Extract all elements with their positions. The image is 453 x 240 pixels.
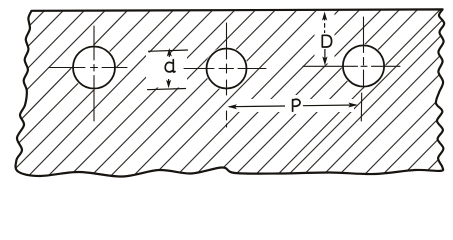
label D xyxy=(322,35,331,47)
hole 2 horizontal centerline xyxy=(184,68,266,70)
label p xyxy=(293,99,300,111)
clear zone around hole 1 xyxy=(72,45,117,90)
dimension p right arrow xyxy=(348,103,358,108)
hole 1 vertical centerline xyxy=(93,26,95,121)
dimension d extension line bottom xyxy=(147,89,186,90)
dimension d extension line top xyxy=(148,50,188,51)
dimension p line left xyxy=(229,105,285,108)
plate outline with broken edges xyxy=(16,9,445,176)
label d xyxy=(165,60,175,72)
section hatching of plate xyxy=(0,3,453,184)
dimension D upper arrow xyxy=(322,12,327,21)
clear zone around hole 3 xyxy=(342,44,386,88)
hole 3 horizontal centerline xyxy=(303,65,400,67)
hole 3 xyxy=(343,45,384,86)
clear zone around hole 2 xyxy=(205,47,248,90)
dimension D lower arrow xyxy=(322,57,327,66)
hole 2 vertical centerline xyxy=(226,23,228,127)
hole 3 vertical centerline xyxy=(363,17,365,88)
dimension p left arrow xyxy=(228,104,238,109)
dimension p line right xyxy=(303,104,356,107)
clear zone for p dimension xyxy=(232,99,354,112)
clear zone for D dimension xyxy=(315,13,335,64)
hole 1 xyxy=(73,47,115,89)
hole 1 horizontal centerline xyxy=(49,67,127,69)
hole 3 centerline extension below xyxy=(360,93,362,121)
hole 2 xyxy=(207,49,247,89)
dimension d lower arrow xyxy=(166,80,171,89)
dimension d upper arrow xyxy=(167,48,172,57)
clear zone for d dimension xyxy=(146,53,187,88)
